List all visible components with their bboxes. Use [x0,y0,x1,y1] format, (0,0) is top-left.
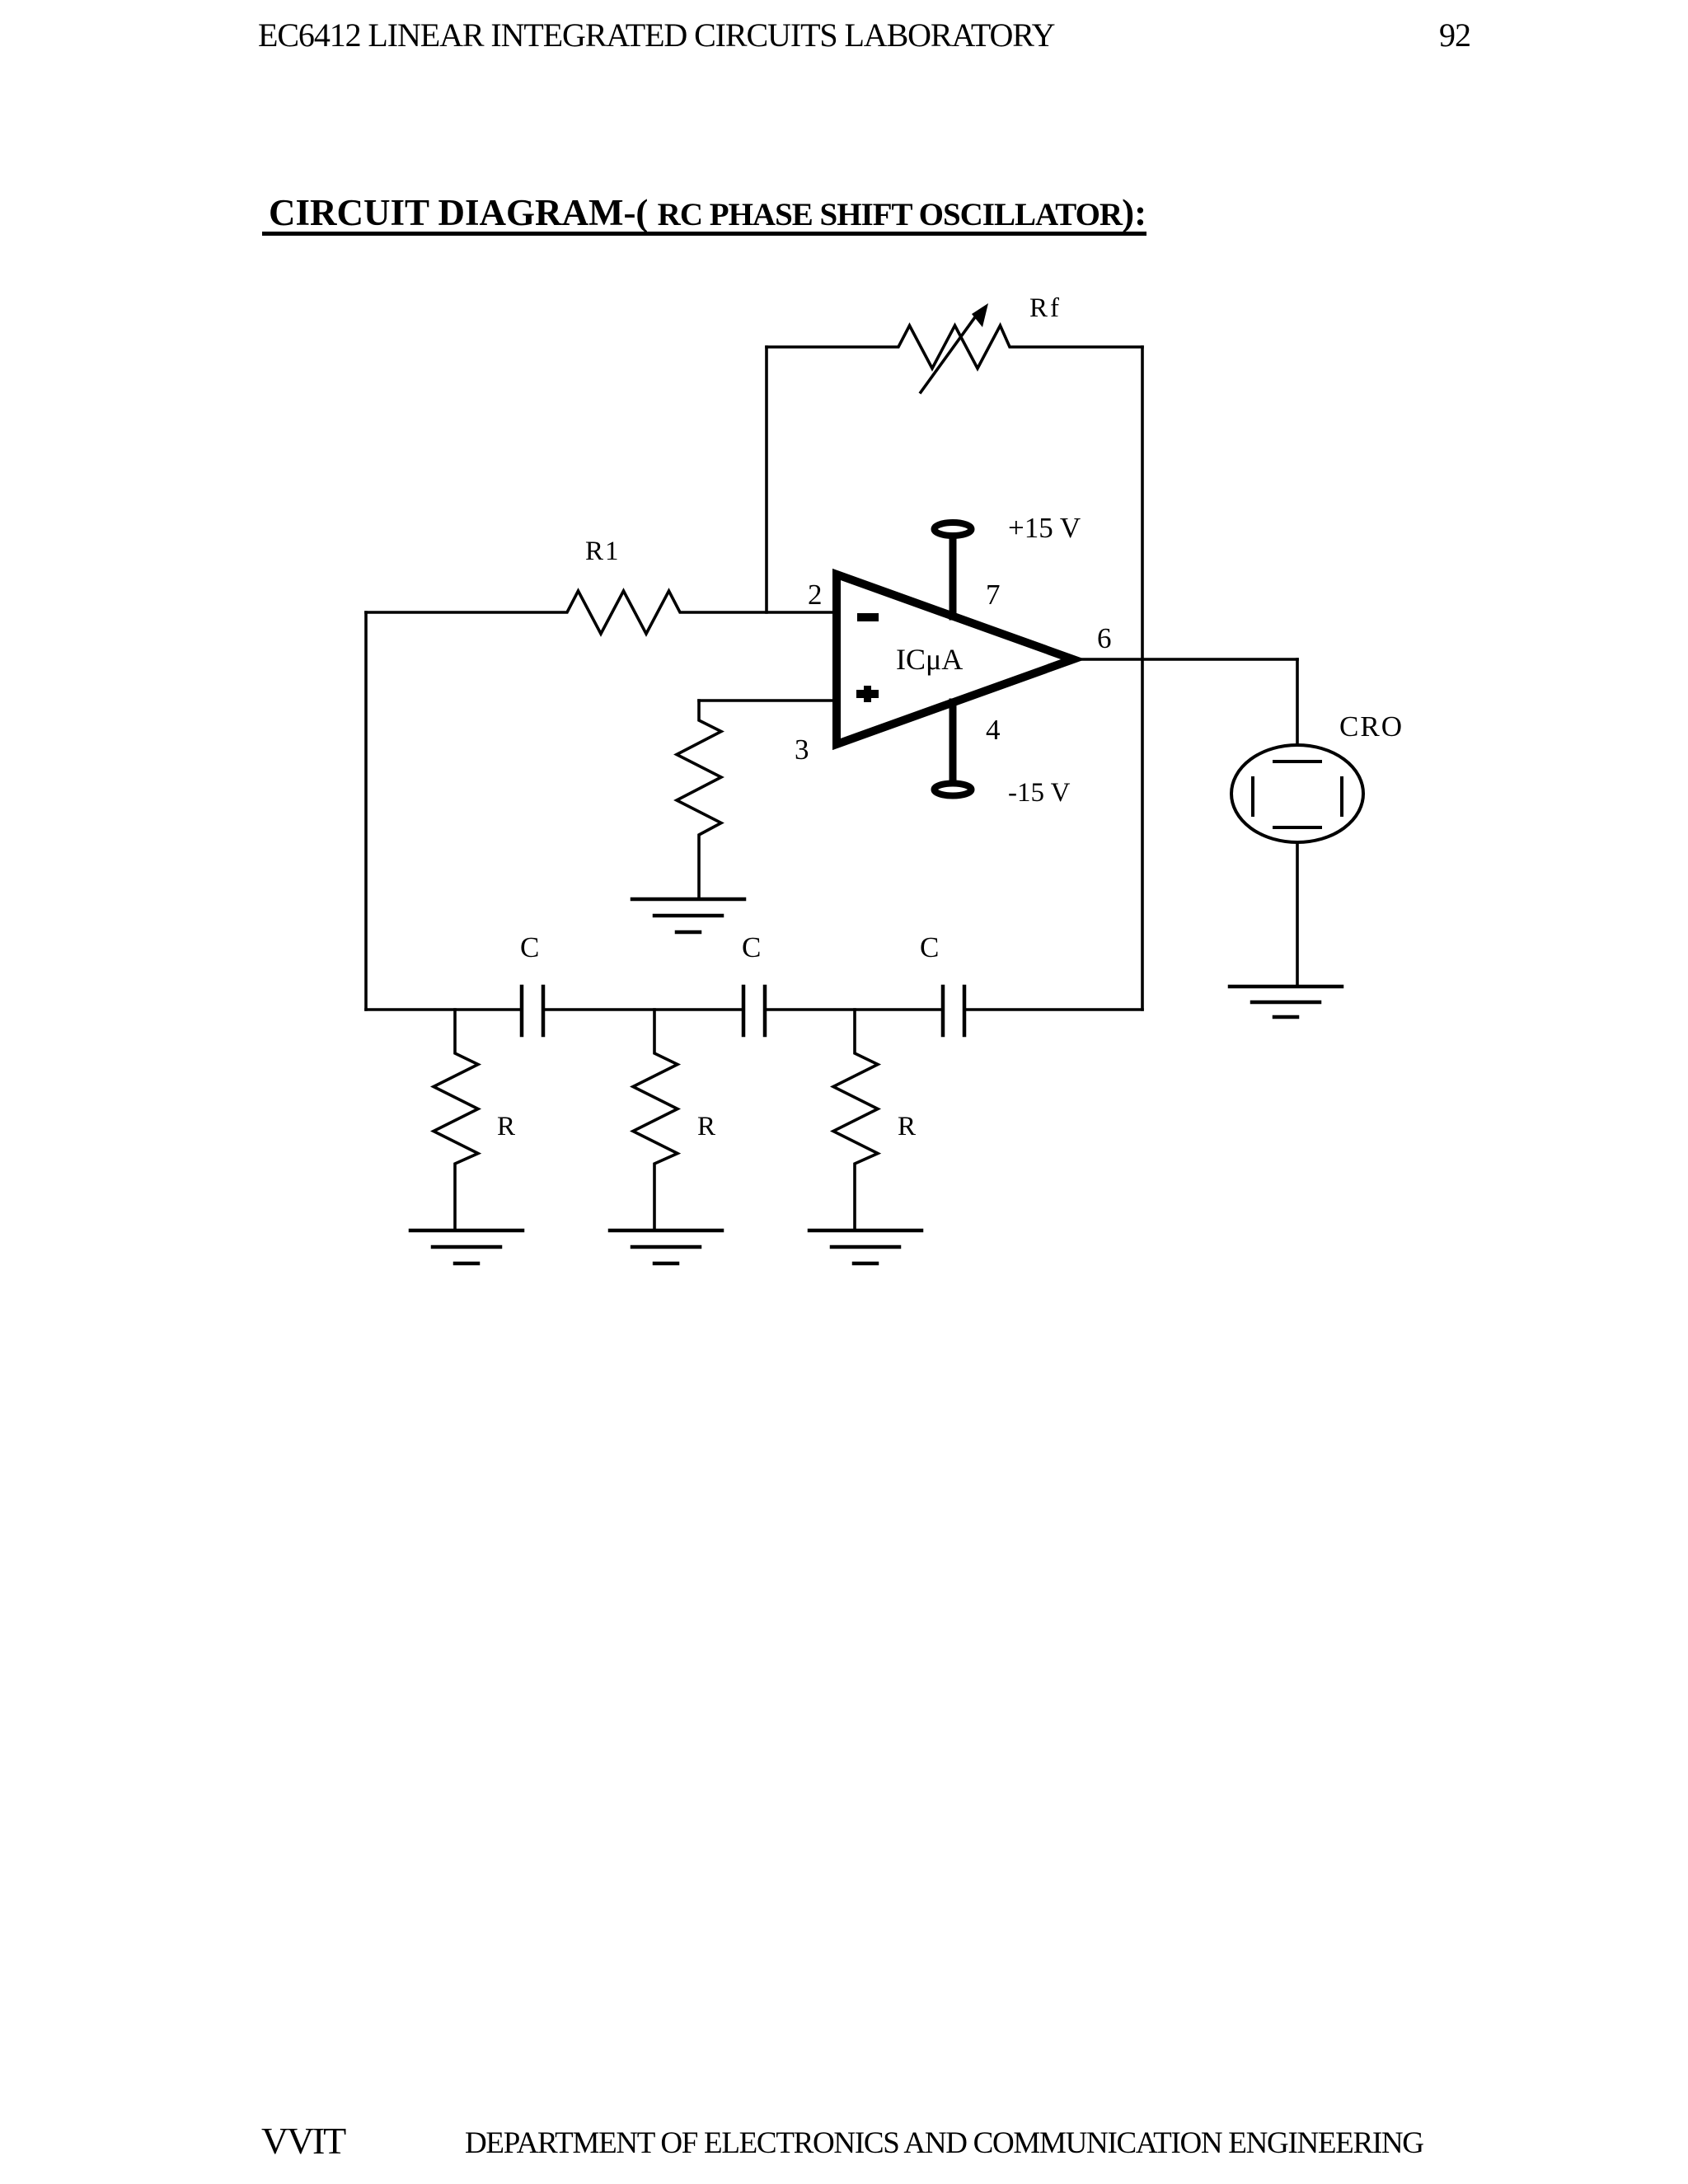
wire: bottom rail segment 1 [366,1008,522,1011]
wire: non-inverting input pin 3 [699,699,837,702]
svg-text:CRO: CRO [1339,710,1404,743]
svg-text:Rf: Rf [1029,293,1062,323]
wire: feedback tap vertical from Rf down to pin-2 node [765,347,768,612]
op-amp inverting input minus symbol [857,613,879,621]
resistor R shunt 1 (vertical) [434,1010,478,1230]
wire: feedback right vertical (pin 6 rail down to network) [1141,347,1144,1010]
op-amp non-inverting input plus symbol [856,686,879,702]
ground: pin-3 resistor [632,899,744,932]
footer: institute [261,2122,345,2160]
CRO body (oscilloscope) [1231,745,1363,842]
op-amp +V stem pin 7 [949,537,957,616]
svg-text:-15 V: -15 V [1008,778,1071,808]
svg-text:3: 3 [795,733,809,766]
capacitor C1 plates [522,987,543,1035]
svg-text:2: 2 [808,579,823,611]
wire: left rail vertical (node A down to phase-shift network) [364,612,368,1010]
svg-text:7: 7 [986,579,1001,611]
wire: bottom rail segment 4 [964,1008,1142,1011]
wire: CRO to ground [1296,844,1299,987]
ground: shunt 3 [809,1230,921,1263]
wire: bottom rail segment 2 [543,1008,743,1011]
section heading [262,194,1146,236]
CRO screen [1253,762,1342,827]
svg-text:R: R [898,1112,916,1141]
ground: shunt 1 [410,1230,523,1263]
op-amp U1 triangle [837,574,1073,744]
ground: shunt 2 [610,1230,722,1263]
wire: CRO drop [1296,659,1299,744]
svg-text:C: C [742,931,761,963]
ground: CRO [1230,987,1342,1017]
svg-text:+15 V: +15 V [1008,512,1081,544]
footer: department [465,2128,1423,2158]
capacitor C3 plates [943,987,964,1035]
potentiometer Rf arrowhead [972,303,988,327]
svg-text:C: C [920,931,939,963]
svg-text:ICμA: ICμA [896,643,963,676]
header: page number [1439,19,1470,52]
potentiometer Rf (variable feedback resistor) [767,326,1142,368]
svg-text:C: C [520,931,539,963]
potentiometer Rf arrow [921,315,977,392]
+15V supply bulb [935,523,972,536]
-15V supply bulb [935,784,972,796]
resistor R1 (horizontal, in series with op-amp pin 2) [366,591,837,634]
svg-text:6: 6 [1097,622,1112,654]
svg-text:R: R [697,1112,715,1141]
resistor R shunt 3 (vertical) [833,1010,878,1230]
wire: bottom rail segment 3 [765,1008,943,1011]
resistor at pin 3 to ground (vertical) [677,701,721,899]
svg-text:R1: R1 [585,537,621,566]
header: course title [258,19,1054,52]
resistor R shunt 2 (vertical) [633,1010,678,1230]
wire: op-amp output pin 6 to CRO branch [1073,658,1297,661]
svg-text:R: R [497,1112,515,1141]
capacitor C2 plates [743,987,765,1035]
svg-text:4: 4 [986,714,1001,746]
op-amp -V stem pin 4 [949,702,957,780]
